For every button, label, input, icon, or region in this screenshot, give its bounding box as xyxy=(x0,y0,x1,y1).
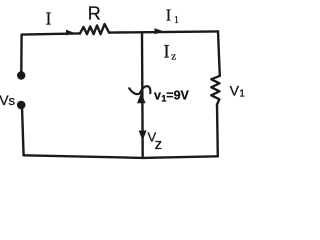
svg-text:I: I xyxy=(163,41,169,62)
svg-text:1: 1 xyxy=(174,15,179,26)
svg-text:z: z xyxy=(171,50,176,62)
svg-text:z: z xyxy=(155,136,163,153)
svg-text:s: s xyxy=(9,93,16,108)
svg-text:1: 1 xyxy=(239,89,245,100)
svg-text:R: R xyxy=(88,3,101,23)
svg-text:=9V: =9V xyxy=(166,89,189,103)
svg-text:V: V xyxy=(230,82,240,98)
svg-text:v: v xyxy=(154,89,161,103)
svg-text:I: I xyxy=(46,9,52,29)
svg-text:I: I xyxy=(166,6,172,25)
